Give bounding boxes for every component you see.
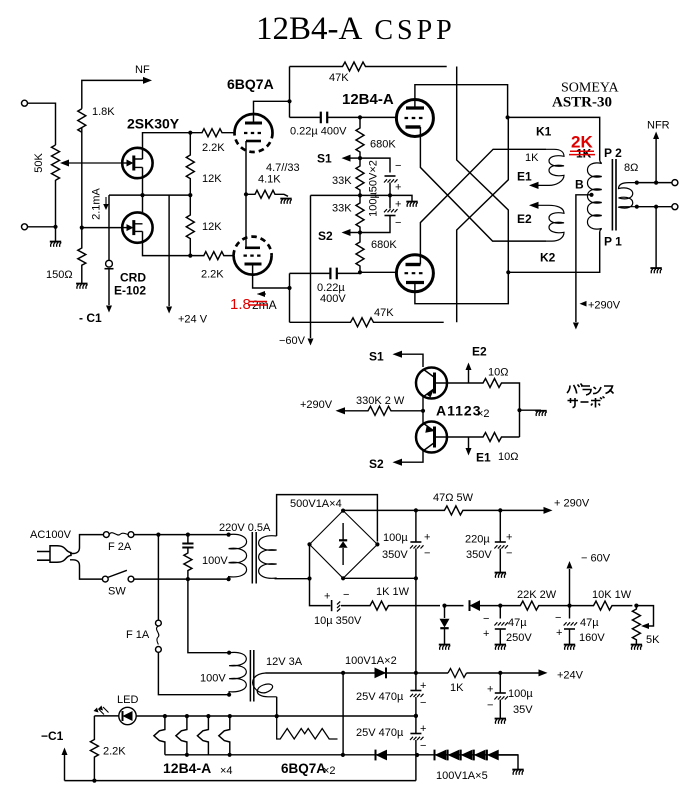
resistor 12K upper [186, 133, 194, 195]
resistor 1K 1W [365, 601, 440, 610]
svg-text:S1: S1 [317, 152, 332, 166]
U2 grid dashes [244, 255, 262, 257]
svg-text:220µ: 220µ [465, 534, 490, 546]
svg-text:−: − [420, 740, 426, 752]
capacitor 25V470u upper [410, 690, 421, 692]
balance servo katakana [567, 384, 614, 408]
node bottom rail [506, 270, 510, 274]
transistor Q4 A1123 lower [416, 422, 447, 453]
svg-text:6BQ7A: 6BQ7A [227, 76, 274, 92]
svg-text:1K 1W: 1K 1W [376, 586, 410, 598]
AC plug [37, 552, 50, 561]
+24V arrow [539, 669, 548, 676]
U4 grid dashes [405, 272, 425, 274]
svg-text:−C1: −C1 [41, 729, 64, 743]
heater bottom bus [165, 754, 518, 756]
tube U4 12B4-A lower [396, 255, 433, 292]
S2 arrow [349, 232, 360, 234]
svg-text:1K: 1K [525, 152, 539, 164]
svg-text:2.2K: 2.2K [103, 746, 126, 758]
svg-text:E-102: E-102 [114, 284, 146, 298]
wire Q2 gate from 1.8K node [82, 227, 122, 229]
svg-text:12K: 12K [202, 221, 222, 233]
wire 1.8K to lower-gate node [81, 128, 83, 228]
svg-text:100V: 100V [200, 673, 226, 685]
NFR line [655, 139, 657, 183]
capacitor C1 0.22u top [290, 116, 361, 118]
E1 arrow [529, 182, 539, 189]
capacitor 25V470u lower [410, 733, 421, 735]
wire midpoint to 33K mid [360, 194, 390, 196]
svg-text:10Ω: 10Ω [498, 451, 518, 463]
capacitor 100u 350V [415, 510, 417, 541]
capacitor C2 0.22u bottom [290, 272, 361, 274]
ground 4.1K [280, 199, 292, 204]
U4 plate bar [406, 281, 424, 284]
wire J1 to 50K top [28, 103, 56, 145]
heater bus node dots [163, 714, 167, 718]
svg-text:+: + [506, 532, 512, 544]
resistor 1K [448, 669, 467, 678]
node grid bottom [358, 270, 362, 274]
svg-text:25V 470µ: 25V 470µ [356, 691, 404, 703]
svg-text:25V 470µ: 25V 470µ [356, 727, 404, 739]
transistor Q1 2SK30Y upper FET [122, 148, 152, 178]
U3 plate bar [406, 106, 424, 109]
diode on bottom bus [375, 750, 377, 761]
heater 12B4 #2 [176, 716, 187, 755]
node cathode bias [244, 192, 248, 196]
resistor 4.1K [246, 190, 288, 198]
capacitor 47u 250V [499, 606, 501, 619]
Q3 base wire [436, 382, 469, 384]
2.1mA down arrow [105, 197, 107, 206]
svg-text:+: + [395, 199, 401, 211]
svg-text:P 2: P 2 [604, 146, 622, 160]
heater 6BQ7A zigzag [277, 716, 338, 739]
svg-text:10Ω: 10Ω [488, 367, 508, 379]
output terminal wires [637, 183, 672, 207]
svg-text:+: + [483, 628, 489, 640]
capacitor 10u 350V [331, 600, 333, 611]
svg-text:S2: S2 [369, 457, 384, 471]
snubber cap [187, 535, 189, 543]
svg-text:1.8: 1.8 [230, 296, 251, 313]
U2 plate bar [245, 263, 262, 266]
svg-text:47K: 47K [329, 72, 349, 84]
bridge internal diode [342, 523, 344, 565]
svg-text:2SK30Y: 2SK30Y [127, 116, 180, 132]
svg-text:2.2K: 2.2K [201, 269, 224, 281]
top rail to P2 [508, 117, 600, 160]
plug wires to fuse and switch [70, 535, 104, 554]
AC low line down to 10u wire [310, 579, 331, 606]
node servo right [517, 408, 521, 412]
resistor 2.2K lower [191, 252, 234, 260]
fuse F2A [103, 532, 109, 538]
resistor 33K lower [356, 195, 364, 232]
S2 arrow servo [400, 451, 423, 462]
T1 core [252, 532, 256, 584]
svg-text:1K: 1K [450, 682, 464, 694]
T1 secondary top wire to bridge [277, 495, 378, 542]
svg-text:S1: S1 [369, 350, 384, 364]
svg-text:12K: 12K [202, 173, 222, 185]
node grid top [358, 115, 362, 119]
svg-text:47Ω 5W: 47Ω 5W [433, 492, 474, 504]
svg-text:−: − [343, 589, 349, 601]
capacitor 47u 160V [569, 606, 571, 619]
12V rail drop to bottom bus [342, 673, 344, 755]
wire SW to T1 [134, 578, 229, 580]
svg-text:1.8K: 1.8K [92, 106, 115, 118]
svg-text:100V1A×2: 100V1A×2 [345, 655, 397, 667]
-60V arrow [569, 569, 571, 606]
svg-text:E1: E1 [517, 170, 532, 184]
svg-text:33K: 33K [332, 175, 352, 187]
node 1.8K/150ohm [80, 226, 84, 230]
svg-text:+: + [420, 723, 426, 735]
node cap midpoint [388, 193, 392, 197]
+290V rail with 47ohm 5W [414, 508, 418, 512]
heater 12B4 #3 [197, 716, 208, 755]
capacitor 220u 350V [499, 510, 501, 541]
T2 core [250, 650, 253, 702]
svg-text:33K: 33K [332, 203, 352, 215]
svg-text:680K: 680K [371, 239, 397, 251]
svg-text:+290V: +290V [300, 399, 333, 411]
svg-text:12B4-A: 12B4-A [163, 760, 211, 776]
node 12K top [188, 131, 192, 135]
svg-text:10K 1W: 10K 1W [592, 589, 632, 601]
F1A to T2 primary top [158, 652, 229, 694]
svg-text:4.7//33: 4.7//33 [266, 162, 300, 174]
Q4 base wire [436, 436, 469, 438]
svg-text:400V: 400V [320, 293, 346, 305]
resistor 330K2W to +290V [343, 406, 423, 415]
ground under 150ohm [76, 284, 88, 289]
svg-text:NFR: NFR [647, 120, 670, 132]
wire F2A to T1 [134, 534, 229, 536]
E2/K2 winding coil [539, 205, 565, 241]
svg-text:E2: E2 [517, 212, 532, 226]
transformer T2 primary coil [229, 652, 246, 694]
capacitor 100u50V lower [384, 209, 398, 212]
CRD E-102 [108, 195, 110, 260]
svg-text:100V: 100V [202, 555, 228, 567]
resistor 150ohm [78, 228, 86, 283]
U4 cathode lead + diagonal to K1 [420, 149, 546, 264]
wire 50K bottom to ground [55, 180, 57, 241]
wire J2 to junction [28, 226, 56, 228]
svg-text:12B4-A: 12B4-A [342, 91, 394, 108]
lattice line 47Kbottom to top rail [457, 117, 509, 322]
tube U2 6BQ7A lower: dashed top half, solid bottom half [234, 237, 272, 256]
svg-text:100µ: 100µ [383, 532, 408, 544]
node S1 [358, 156, 362, 160]
svg-text:+24 V: +24 V [178, 314, 208, 326]
transformer T1 primary coil [229, 534, 247, 579]
svg-text:500V1A×4: 500V1A×4 [290, 498, 342, 510]
node Q1-source [140, 193, 144, 197]
ground cap midpoint [406, 202, 418, 207]
tube U3 12B4-A upper [396, 100, 433, 137]
wire cap lower to S2 [360, 216, 390, 233]
diode to 22K node [445, 605, 464, 607]
svg-text:×2: ×2 [323, 765, 336, 777]
output ground line [655, 207, 657, 268]
svg-text:+: + [420, 680, 426, 692]
svg-text:−: − [487, 700, 493, 712]
+24V drop line [168, 195, 170, 306]
snubber resistor 100V [184, 548, 192, 580]
svg-text:−: − [420, 697, 426, 709]
U1 plate lead [254, 101, 290, 123]
svg-text:330K 2 W: 330K 2 W [356, 395, 405, 407]
-C1 arrow [64, 755, 66, 781]
transistor Q2 2SK30Y lower FET [122, 212, 152, 242]
svg-text:+: + [487, 684, 493, 696]
U4 plate lead to bottom rail [415, 272, 508, 303]
U3 cathode lead + diagonal to K2 [420, 127, 546, 241]
NF arrowhead [143, 77, 152, 84]
svg-text:ASTR-30: ASTR-30 [552, 95, 612, 111]
resistor 47K top [290, 62, 447, 71]
svg-text:F 1A: F 1A [126, 629, 150, 641]
pot 5K rheostat [632, 606, 640, 644]
node U2 plate [287, 286, 291, 290]
svg-text:K1: K1 [536, 125, 552, 139]
E2 arrow [529, 202, 539, 209]
wire 2.1mA rail CRD to 12K bottom [109, 194, 190, 196]
OPT core lines [612, 159, 616, 231]
svg-text:0.22µ 400V: 0.22µ 400V [290, 126, 347, 138]
50K wiper arrow [69, 162, 122, 164]
node 33K mid [358, 193, 362, 197]
T2 secondary top wire +24V rail [266, 672, 541, 674]
svg-text:NF: NF [135, 64, 150, 76]
diode string 100V1Ax5 [435, 750, 487, 761]
svg-text:LED: LED [117, 694, 138, 706]
svg-text:2.2K: 2.2K [202, 142, 225, 154]
U4 cathode bar [406, 263, 421, 266]
svg-text:2.1mA: 2.1mA [91, 187, 103, 219]
svg-text:100µ: 100µ [508, 688, 533, 700]
SW node down to T2 [188, 579, 229, 653]
resistor 680K lower [356, 233, 364, 273]
DC- drop through to 470u chain [415, 578, 417, 690]
node U1 plate / 47K [287, 99, 291, 103]
U1 grid dashes [244, 132, 262, 134]
tube U1 6BQ7A upper: solid top half, dashed bottom half [235, 114, 273, 133]
diode string to ground [499, 755, 518, 769]
U3 cathode bar [406, 125, 421, 128]
svg-text:22K 2W: 22K 2W [517, 589, 557, 601]
svg-text:+: + [556, 627, 562, 639]
bridge left corner to AC bottom [309, 544, 311, 578]
U1 cathode lead [245, 141, 247, 194]
resistor 2.2K LED [90, 716, 98, 781]
wire Q1 source down to CRD node [142, 167, 144, 212]
svg-text:680K: 680K [370, 139, 396, 151]
svg-text:CRD: CRD [120, 271, 146, 285]
resistor 47K bottom [290, 318, 444, 327]
heater bus wire [94, 715, 416, 717]
E1 arrow down [468, 437, 470, 448]
wire NF branch [82, 80, 146, 108]
svg-text:A1123: A1123 [436, 403, 481, 419]
svg-text:B: B [575, 178, 584, 192]
svg-text:SOMEYA: SOMEYA [561, 81, 619, 96]
svg-text:K2: K2 [540, 251, 556, 265]
U1 plate bar [245, 122, 262, 125]
resistor 2.2K upper [190, 129, 234, 137]
resistor 10ohm upper [469, 379, 520, 438]
diode 100V1Ax2 [375, 668, 387, 679]
U3 plate lead to top rail [415, 85, 508, 118]
U3 grid dashes [405, 117, 425, 119]
lattice line 47Ktop to bottom rail [457, 67, 509, 273]
svg-text:AC100V: AC100V [30, 529, 72, 541]
node 12K mid [188, 193, 192, 197]
node S2 [358, 230, 362, 234]
svg-text:160V: 160V [579, 632, 605, 644]
wire S1 node to cap chain [360, 158, 390, 172]
left vertical bottom (cap wire to 47K bottom) [289, 273, 291, 322]
1.8mA red/black annotation [258, 293, 267, 295]
svg-text:350V: 350V [466, 549, 492, 561]
svg-text:−: − [506, 548, 512, 560]
bottom rail to P1 [508, 232, 599, 272]
svg-text:SW: SW [108, 586, 126, 598]
svg-text:6BQ7A: 6BQ7A [281, 761, 326, 776]
svg-text:47µ: 47µ [508, 617, 527, 629]
capacitor 100u 35V [499, 673, 501, 693]
svg-text:+ 290V: + 290V [554, 498, 590, 510]
servo ground [520, 409, 542, 411]
svg-text:−: − [555, 612, 561, 624]
svg-text:F 2A: F 2A [108, 541, 132, 553]
U2 cathode lead [245, 194, 247, 248]
T1 secondary bottom wire [275, 578, 310, 580]
svg-text:8Ω: 8Ω [624, 162, 638, 174]
svg-text:- C1: - C1 [79, 311, 102, 325]
wire midpoint to -60V line [311, 194, 361, 196]
svg-text:+290V: +290V [588, 300, 621, 312]
svg-text:100V1A×5: 100V1A×5 [436, 770, 488, 782]
resistor 22K 2W [500, 601, 569, 610]
svg-text:250V: 250V [506, 632, 532, 644]
svg-text:+24V: +24V [557, 670, 584, 682]
svg-text:−: − [483, 613, 489, 625]
svg-text:S2: S2 [318, 229, 333, 243]
wire Q2 source to 2.2K lower [143, 231, 192, 255]
svg-text:E2: E2 [472, 345, 487, 359]
svg-text:10µ 350V: 10µ 350V [314, 615, 362, 627]
svg-text:5K: 5K [646, 634, 660, 646]
wire midpoint to ground [390, 195, 412, 201]
svg-text:− 60V: − 60V [581, 553, 611, 565]
DC plus rail from bridge top [343, 509, 416, 511]
zener to ground [444, 606, 446, 618]
capacitor 100u50V upper: flat+hatched plates [385, 175, 396, 177]
input jack J2 [22, 224, 28, 230]
wire cap to midpoint [389, 183, 391, 209]
svg-text:4.1K: 4.1K [258, 174, 281, 186]
LED [119, 707, 136, 724]
resistor 1.8K [78, 109, 86, 133]
transistor Q3 A1123 upper [416, 368, 447, 399]
node top rail [506, 115, 510, 119]
wire Q1 drain up and to 12K chain [143, 133, 191, 159]
svg-text:47K: 47K [374, 307, 394, 319]
-C1 bottom bus [65, 780, 416, 782]
svg-text:+: + [395, 182, 401, 194]
svg-text:×4: ×4 [220, 765, 233, 777]
svg-text:−: − [395, 160, 401, 172]
svg-text:+: + [424, 532, 430, 544]
T1 secondary coil [259, 536, 277, 579]
DC minus rail from bridge bottom [343, 577, 416, 579]
node servo emitters [421, 409, 425, 413]
node 12K bottom [188, 254, 192, 258]
svg-text:150Ω: 150Ω [46, 269, 73, 281]
svg-text:−60V: −60V [279, 335, 306, 347]
K1 winding coil [539, 149, 565, 185]
switch SW [102, 576, 108, 582]
U1 cathode bar [246, 140, 261, 143]
svg-text:220V 0.5A: 220V 0.5A [219, 522, 271, 534]
wire cap to U4 grid [360, 271, 396, 273]
node J2/50K [53, 225, 57, 229]
resistor 10K 1W [570, 601, 633, 610]
-60V drop line [310, 195, 312, 338]
output jacks [672, 180, 678, 186]
svg-text:12V 3A: 12V 3A [266, 656, 303, 668]
svg-text:P 1: P 1 [604, 235, 622, 249]
+290V small arrow [583, 303, 587, 305]
U2 plate lead [253, 264, 290, 288]
fuse F1A [157, 535, 159, 621]
OPT secondary winding [619, 183, 637, 209]
heater 12B4 #1 [154, 716, 165, 755]
ground under 50K [50, 242, 62, 247]
svg-text:12B4-ACSPP: 12B4-ACSPP [256, 11, 456, 47]
resistor 680K upper [356, 117, 364, 158]
T2 secondary bottom to heater bus [276, 697, 278, 716]
B tap wire to +290V [576, 195, 592, 322]
potentiometer 50K [52, 145, 60, 180]
svg-text:100µ50V×2: 100µ50V×2 [368, 160, 380, 217]
svg-text:350V: 350V [382, 549, 408, 561]
heater 12B4 #4 [219, 716, 230, 755]
left vertical top (47K to cap wire) [289, 67, 291, 118]
T2 secondary coil [253, 673, 277, 697]
resistor 33K upper [356, 158, 364, 195]
resistor 12K lower [186, 195, 194, 256]
E2 arrow up [468, 370, 470, 383]
svg-text:+: + [324, 591, 330, 603]
svg-text:1K: 1K [576, 147, 592, 161]
svg-text:−: − [395, 217, 401, 229]
svg-text:35V: 35V [513, 704, 533, 716]
svg-text:47µ: 47µ [580, 617, 599, 629]
wire cap to U3 grid [360, 116, 396, 118]
svg-text:×2: ×2 [477, 408, 490, 420]
node B tap [589, 193, 593, 197]
resistor 10ohm lower [469, 433, 520, 442]
S1 arrow [349, 157, 360, 159]
